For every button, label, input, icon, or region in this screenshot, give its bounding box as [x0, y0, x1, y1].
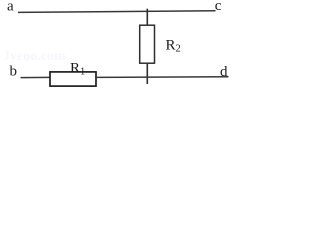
- wire b to R1: [21, 76, 51, 78]
- wire a-c (top): [18, 11, 216, 13]
- svg-text:a: a: [7, 0, 14, 14]
- resistor R2: [140, 25, 155, 63]
- wire R1 to node d: [96, 76, 229, 79]
- resistor R1: [50, 72, 96, 86]
- svg-text:d: d: [220, 64, 228, 80]
- svg-text:c: c: [215, 0, 222, 14]
- wire junction to R2 top: [146, 9, 148, 26]
- wire R2 bottom to node: [146, 63, 148, 84]
- svg-text:b: b: [10, 63, 18, 79]
- svg-text:Jyeoo.com: Jyeoo.com: [3, 49, 66, 64]
